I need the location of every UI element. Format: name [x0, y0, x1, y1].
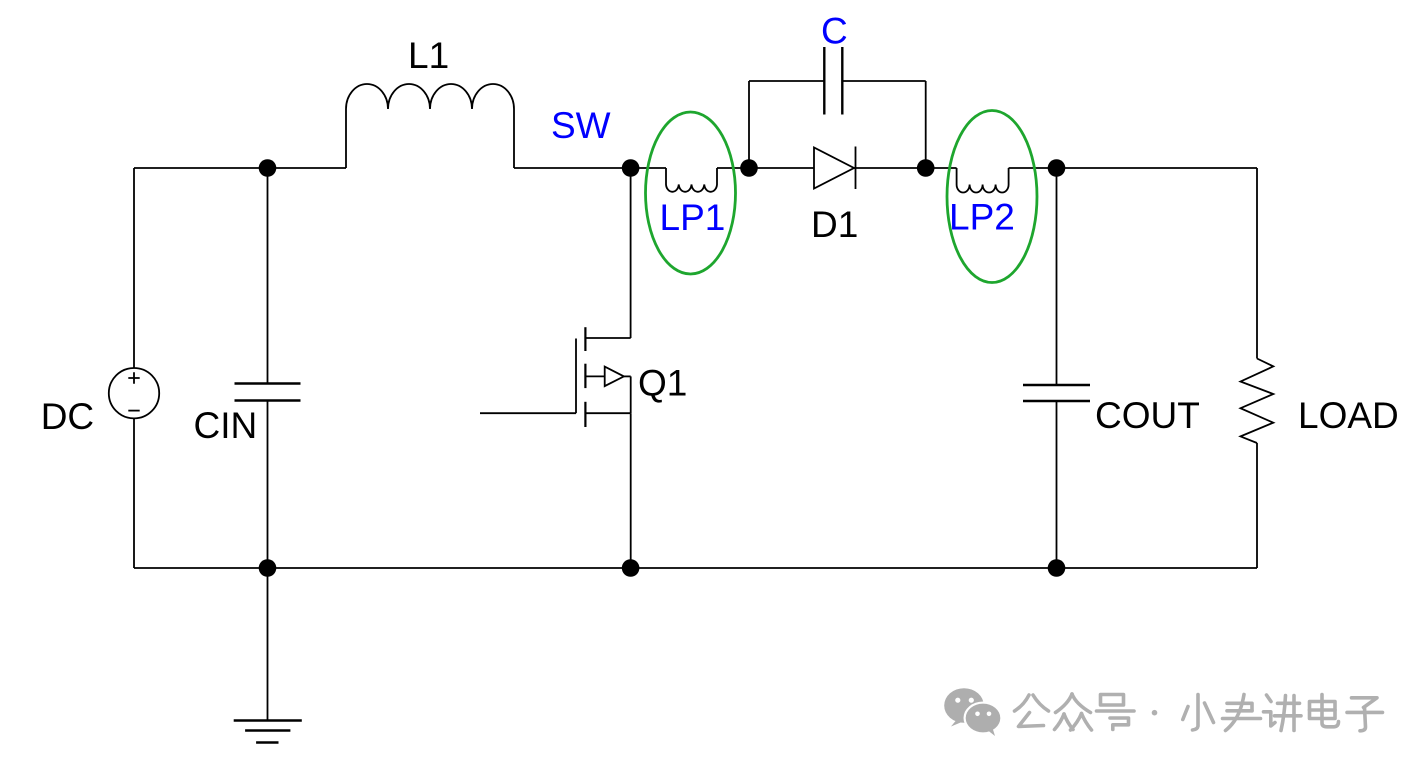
ground	[234, 721, 302, 743]
svg-text:D1: D1	[811, 204, 858, 245]
watermark char xiao	[1183, 695, 1214, 731]
watermark char hao	[1097, 695, 1135, 730]
wire snubber top-right	[842, 80, 925, 82]
svg-text:DC: DC	[41, 396, 94, 437]
inductor L1	[346, 84, 514, 168]
wire Q1 source to bottom rail	[630, 413, 632, 568]
wire LP1 to diode anode	[717, 167, 814, 169]
resistor LOAD	[1241, 359, 1274, 444]
capacitor CIN	[235, 384, 301, 401]
highlight ellipse around LP2	[947, 111, 1037, 283]
source DC	[109, 368, 159, 418]
transistor Q1	[480, 327, 631, 427]
wire snubber left vertical	[748, 81, 750, 168]
svg-text:LP2: LP2	[949, 197, 1015, 238]
wire diode cathode	[854, 167, 926, 169]
svg-text:CIN: CIN	[194, 405, 258, 446]
wire CIN drop	[267, 168, 269, 384]
wire left rail lower	[133, 418, 135, 568]
svg-text:LOAD: LOAD	[1298, 395, 1399, 436]
node Q1 source junction	[622, 559, 640, 577]
wire snubber right vertical	[925, 81, 927, 168]
svg-text:C: C	[821, 11, 848, 52]
wire ground stem	[267, 568, 269, 721]
svg-text:Q1: Q1	[638, 363, 687, 404]
wire snubber top-left	[749, 80, 824, 82]
wire top-right rail	[1009, 167, 1257, 169]
inductor LP2	[957, 168, 1009, 193]
highlight ellipse around LP1	[646, 112, 736, 274]
watermark char jiang	[1264, 695, 1302, 731]
watermark middle dot	[1152, 710, 1158, 716]
inductor LP1	[666, 168, 717, 192]
svg-text:SW: SW	[551, 105, 611, 146]
node ground junction	[259, 559, 277, 577]
svg-text:L1: L1	[408, 35, 449, 76]
node SW junction	[622, 159, 640, 177]
wire SW segment	[514, 167, 666, 169]
diode D1	[814, 147, 856, 190]
svg-text:COUT: COUT	[1095, 395, 1200, 436]
watermark char yin	[1223, 695, 1261, 731]
wire COUT to bottom rail	[1056, 401, 1058, 568]
wire load to bottom rail	[1256, 443, 1258, 568]
node diode cathode junction	[917, 159, 935, 177]
wire bottom rail	[134, 567, 1257, 569]
wire top-left rail	[134, 167, 346, 169]
wire right drop to load	[1256, 168, 1258, 359]
watermark char zhong	[1055, 694, 1092, 730]
node CIN top junction	[259, 159, 277, 177]
wire COUT drop	[1056, 168, 1058, 385]
svg-text:LP1: LP1	[660, 197, 726, 238]
node COUT bottom junction	[1048, 559, 1066, 577]
node diode anode junction	[740, 159, 758, 177]
wire left rail upper	[133, 168, 135, 368]
watermark char zi	[1347, 698, 1383, 731]
wire SW drop to Q1 drain	[630, 168, 632, 338]
watermark char dian	[1310, 695, 1339, 727]
capacitor COUT	[1023, 385, 1090, 401]
wire CIN to bottom rail	[267, 401, 269, 569]
watermark char gong	[1015, 695, 1049, 727]
wire to LP2	[926, 167, 957, 169]
watermark wechat icon	[944, 688, 1002, 736]
capacitor C	[824, 47, 842, 115]
node output top junction	[1048, 159, 1066, 177]
